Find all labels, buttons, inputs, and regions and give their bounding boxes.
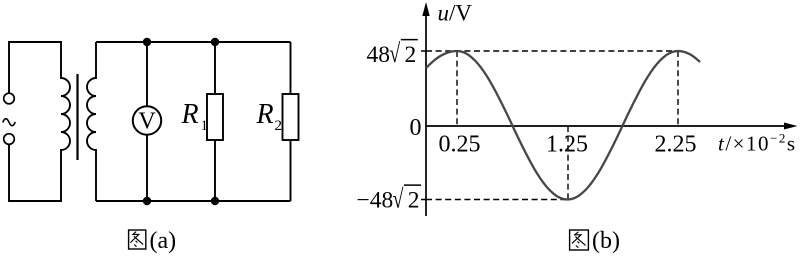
svg-text:R: R: [181, 99, 199, 130]
svg-text:48: 48: [367, 42, 391, 68]
svg-text:2: 2: [408, 188, 420, 214]
svg-text:√: √: [393, 185, 404, 214]
svg-text:u/V: u/V: [438, 1, 473, 26]
svg-text:−48: −48: [357, 188, 394, 214]
svg-text:√: √: [389, 39, 400, 68]
svg-text:2: 2: [275, 118, 283, 134]
svg-text:2: 2: [405, 42, 417, 68]
svg-text:0.25: 0.25: [439, 132, 481, 158]
svg-text:(a): (a): [150, 228, 177, 254]
svg-text:1: 1: [201, 118, 209, 134]
svg-text:0: 0: [410, 115, 422, 141]
svg-text:V: V: [138, 109, 156, 135]
svg-text:R: R: [256, 99, 274, 130]
svg-text:(b): (b): [592, 228, 620, 254]
svg-text:2.25: 2.25: [655, 132, 697, 158]
svg-text:1.25: 1.25: [546, 132, 588, 158]
